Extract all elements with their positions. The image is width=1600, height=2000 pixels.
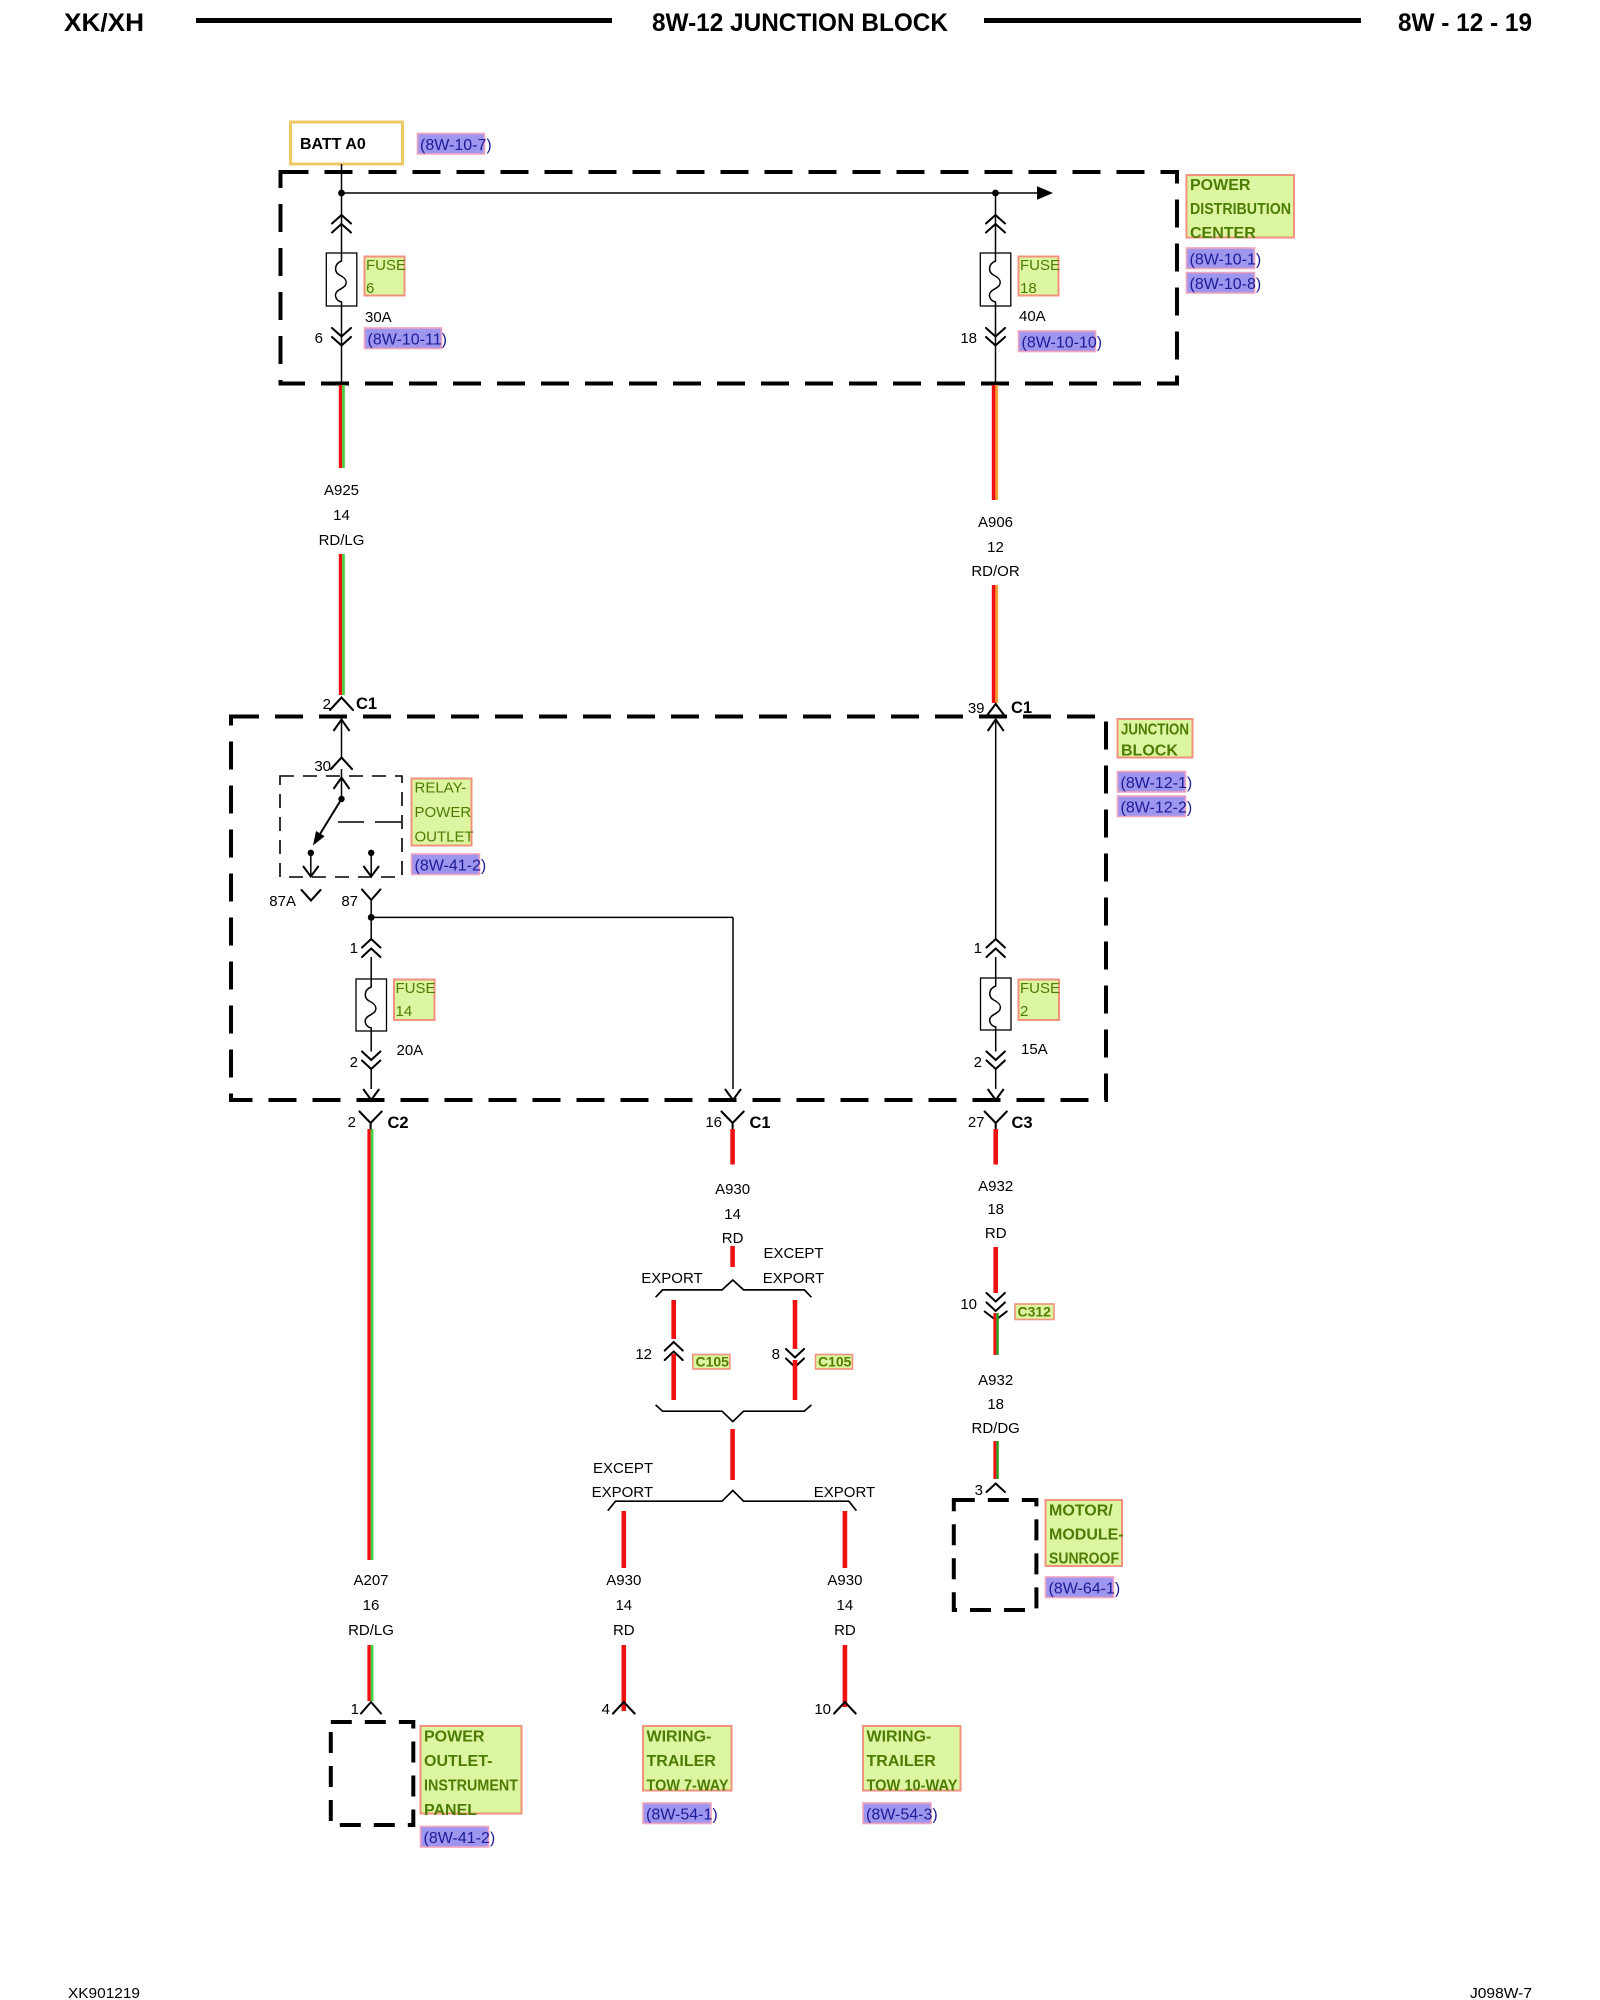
- svg-text:EXPORT: EXPORT: [592, 1484, 653, 1501]
- wire bus horizontal: [342, 192, 1038, 194]
- svg-text:JUNCTION: JUNCTION: [1121, 722, 1189, 739]
- wire merged stub RD: [730, 1429, 735, 1480]
- label C105 right: [816, 1354, 853, 1370]
- svg-text:EXCEPT: EXCEPT: [593, 1460, 653, 1477]
- wire entry arrow JB right: [988, 720, 1004, 940]
- svg-text:A932: A932: [978, 1178, 1013, 1195]
- svg-text:RD: RD: [985, 1225, 1007, 1242]
- wire A930 stub to split: [730, 1246, 735, 1267]
- svg-text:1: 1: [350, 940, 358, 957]
- reference (8W-41-2) lower: [421, 1827, 496, 1848]
- fuse F6 body: [326, 253, 357, 306]
- pin 87A label and chevron: [269, 890, 320, 910]
- wire fuse 18 to PDC edge: [995, 306, 997, 383]
- reference (8W-54-1): [643, 1803, 718, 1824]
- svg-text:RD/LG: RD/LG: [348, 1622, 394, 1639]
- svg-text:(8W-10-7): (8W-10-7): [420, 137, 492, 154]
- svg-text:4: 4: [602, 1701, 610, 1718]
- wire A925 upper segment RD/LG: [339, 385, 345, 468]
- svg-text:27: 27: [968, 1114, 985, 1131]
- svg-text:C312: C312: [1018, 1304, 1052, 1320]
- wire except-export branch upper RD: [793, 1300, 798, 1349]
- svg-text:87: 87: [341, 893, 358, 910]
- svg-text:A930: A930: [606, 1572, 641, 1589]
- label POWER OUTLET-INSTRUMENT PANEL: [421, 1726, 522, 1819]
- svg-text:30A: 30A: [365, 309, 392, 326]
- wire trailer 10way branch RD lower: [843, 1645, 848, 1707]
- pin 1 label and chevrons fuse 2: [974, 939, 1005, 978]
- node junction dot left: [338, 190, 345, 197]
- reference (8W-12-1): [1118, 772, 1193, 793]
- wire trailer 10way branch RD upper: [843, 1511, 848, 1568]
- svg-text:TOW 10-WAY: TOW 10-WAY: [867, 1778, 958, 1795]
- svg-text:WIRING-: WIRING-: [647, 1729, 712, 1746]
- label MOTOR/MODULE-SUNROOF: [1046, 1500, 1124, 1568]
- wire export branch lower RD: [671, 1354, 676, 1400]
- svg-text:RD/OR: RD/OR: [971, 563, 1020, 580]
- wire label A906 12 RD/OR: [971, 514, 1020, 580]
- wire trailer 7way branch RD upper: [622, 1511, 627, 1568]
- label POWER DISTRIBUTION CENTER: [1187, 175, 1295, 242]
- label JUNCTION BLOCK: [1118, 719, 1193, 760]
- wire export branch upper RD: [671, 1300, 676, 1339]
- svg-text:14: 14: [615, 1597, 632, 1614]
- label WIRING-TRAILER TOW 10-WAY: [863, 1726, 961, 1795]
- svg-text:2: 2: [974, 1054, 982, 1071]
- component sunroof module dashed box: [954, 1500, 1037, 1610]
- relay pin 87 internal: [363, 850, 379, 877]
- svg-text:14: 14: [396, 1003, 413, 1020]
- wire A932 RD from C3: [993, 1129, 998, 1165]
- svg-text:TRAILER: TRAILER: [867, 1753, 937, 1770]
- relay pin 87A internal: [303, 850, 319, 877]
- wire bus to fuse 18: [995, 193, 997, 253]
- svg-text:INSTRUMENT: INSTRUMENT: [424, 1778, 518, 1795]
- svg-text:6: 6: [315, 330, 323, 347]
- wire A906 upper segment RD/OR: [992, 385, 998, 500]
- connector C3 pin 27 below JB: [968, 1112, 1033, 1133]
- svg-text:FUSE: FUSE: [396, 980, 436, 997]
- wire fuse 6 to PDC edge: [341, 306, 343, 383]
- svg-text:15A: 15A: [1021, 1041, 1048, 1058]
- wire label A930 14 RD right: [827, 1572, 862, 1639]
- wire A932 RD to C312: [993, 1247, 998, 1293]
- svg-text:FUSE: FUSE: [1020, 257, 1060, 274]
- bus arrow right: [1037, 186, 1053, 200]
- label FUSE 6: [365, 257, 407, 298]
- reference (8W-12-2): [1118, 796, 1193, 817]
- svg-text:14: 14: [724, 1206, 741, 1223]
- wire fuse 2 down: [995, 1030, 997, 1052]
- connector C2 pin 2 below JB: [348, 1112, 409, 1133]
- pin 2 label and chevrons fuse 2 exit: [974, 1052, 1005, 1072]
- svg-text:40A: 40A: [1019, 308, 1046, 325]
- svg-text:OUTLET: OUTLET: [415, 829, 474, 846]
- label EXCEPT EXPORT right: [763, 1245, 824, 1287]
- component power outlet dashed box: [331, 1722, 414, 1825]
- wire bus to fuse 6: [341, 193, 343, 253]
- svg-text:RD: RD: [834, 1622, 856, 1639]
- svg-text:30: 30: [314, 758, 331, 775]
- wire BATT A0 to bus: [341, 164, 343, 193]
- wire except-export branch lower RD: [793, 1360, 798, 1400]
- merge brace below C105: [656, 1405, 812, 1422]
- reference (8W-10-8): [1187, 273, 1262, 294]
- wire 87 branch horizontal: [371, 916, 733, 918]
- svg-text:C105: C105: [696, 1354, 730, 1370]
- svg-text:(8W-10-10): (8W-10-10): [1022, 335, 1103, 352]
- power distribution center dashed box: [281, 172, 1178, 384]
- fuse F14 body: [356, 979, 387, 1031]
- label FUSE 2: [1019, 980, 1061, 1021]
- reference (8W-41-2): [412, 854, 487, 875]
- svg-text:C105: C105: [818, 1354, 852, 1370]
- svg-text:8W-12 JUNCTION BLOCK: 8W-12 JUNCTION BLOCK: [652, 9, 948, 37]
- svg-text:RD/DG: RD/DG: [972, 1420, 1020, 1437]
- svg-text:2: 2: [350, 1054, 358, 1071]
- wire A207 RD/LG long segment: [367, 1129, 373, 1560]
- svg-text:2: 2: [1020, 1003, 1028, 1020]
- svg-text:(8W-12-1): (8W-12-1): [1121, 775, 1193, 792]
- wire A207 lower segment: [367, 1645, 373, 1701]
- svg-text:A930: A930: [715, 1181, 750, 1198]
- svg-text:WIRING-: WIRING-: [867, 1729, 932, 1746]
- label EXCEPT EXPORT lower left: [592, 1460, 653, 1501]
- wire A932 RD/DG upper: [993, 1313, 998, 1355]
- connector pin 1 power outlet: [351, 1701, 381, 1718]
- svg-text:14: 14: [333, 507, 350, 524]
- svg-text:18: 18: [987, 1201, 1004, 1218]
- svg-text:(8W-10-1): (8W-10-1): [1190, 252, 1262, 269]
- wire A930 RD from C1: [730, 1129, 735, 1165]
- wire A932 RD/DG lower: [993, 1441, 998, 1479]
- connector C1 pin 16 below JB: [705, 1112, 770, 1133]
- fuse F2 body: [981, 978, 1012, 1030]
- svg-text:SUNROOF: SUNROOF: [1049, 1551, 1119, 1568]
- reference (8W-10-7): [418, 134, 492, 155]
- svg-text:14: 14: [837, 1597, 854, 1614]
- svg-text:RD: RD: [613, 1622, 635, 1639]
- svg-text:OUTLET-: OUTLET-: [424, 1753, 492, 1770]
- label FUSE 14: [394, 980, 436, 1021]
- svg-text:MOTOR/: MOTOR/: [1049, 1503, 1113, 1520]
- svg-text:POWER: POWER: [415, 804, 472, 821]
- svg-text:A207: A207: [353, 1572, 388, 1589]
- svg-text:A930: A930: [827, 1572, 862, 1589]
- splice chevrons above fuse 18: [986, 215, 1005, 233]
- svg-text:PANEL: PANEL: [424, 1802, 477, 1819]
- svg-text:18: 18: [987, 1396, 1004, 1413]
- node junction at 87: [368, 914, 375, 921]
- svg-text:BLOCK: BLOCK: [1121, 743, 1178, 760]
- relay K1 power outlet dashed box: [280, 776, 402, 877]
- svg-text:A906: A906: [978, 514, 1013, 531]
- svg-text:EXPORT: EXPORT: [814, 1484, 875, 1501]
- split brace lower except export / export: [608, 1491, 857, 1511]
- wire entry arrow to relay pin 30: [334, 720, 350, 758]
- svg-text:C1: C1: [750, 1114, 771, 1132]
- svg-text:C3: C3: [1012, 1114, 1033, 1132]
- pin 1 label and chevrons fuse 14: [350, 939, 381, 979]
- wire 87 branch down to C1 16: [725, 917, 741, 1100]
- connector C312 pin 10 chevrons: [960, 1293, 1006, 1320]
- svg-text:C1: C1: [356, 695, 377, 713]
- svg-text:87A: 87A: [269, 893, 296, 910]
- svg-text:MODULE-: MODULE-: [1049, 1527, 1124, 1544]
- reference (8W-54-3): [863, 1803, 938, 1824]
- label WIRING-TRAILER TOW 7-WAY: [643, 1726, 732, 1795]
- header rule right: [984, 18, 1361, 23]
- svg-text:C1: C1: [1011, 699, 1032, 717]
- svg-text:16: 16: [705, 1114, 722, 1131]
- svg-text:(8W-64-1): (8W-64-1): [1049, 1581, 1121, 1598]
- pin 6 exit chevrons: [332, 328, 351, 346]
- svg-text:POWER: POWER: [1190, 177, 1251, 194]
- wire label A925 14 RD/LG: [319, 482, 365, 549]
- wire 87 to fuse 14: [370, 917, 372, 939]
- wire trailer 7way branch RD lower: [622, 1645, 627, 1711]
- label FUSE 18: [1019, 257, 1061, 298]
- header rule left: [196, 18, 612, 23]
- svg-text:6: 6: [366, 280, 374, 297]
- pin 2 label and chevrons fuse 14 exit: [350, 1052, 381, 1072]
- svg-text:(8W-10-8): (8W-10-8): [1190, 276, 1262, 293]
- wire A925 lower segment RD/LG: [339, 554, 345, 695]
- connector pin 4 trailer 7way: [602, 1701, 635, 1718]
- wire label A930 14 RD left: [606, 1572, 641, 1639]
- svg-text:3: 3: [975, 1482, 983, 1499]
- svg-text:(8W-41-2): (8W-41-2): [424, 1830, 496, 1847]
- connector pin 3 sunroof: [975, 1482, 1005, 1499]
- svg-text:CENTER: CENTER: [1190, 225, 1256, 242]
- label RELAY-POWER OUTLET: [412, 779, 474, 846]
- svg-text:EXPORT: EXPORT: [763, 1270, 824, 1287]
- connector C105 pin 8 chevrons: [772, 1346, 804, 1367]
- reference (8W-10-10): [1019, 331, 1103, 352]
- wire to JB edge with arrow: [363, 1069, 379, 1100]
- svg-text:J098W-7: J098W-7: [1470, 1985, 1532, 2000]
- svg-text:RELAY-: RELAY-: [415, 780, 467, 797]
- wire A906 lower segment RD/OR: [992, 585, 998, 703]
- split brace export / except export: [656, 1280, 812, 1297]
- svg-text:8W - 12 - 19: 8W - 12 - 19: [1398, 9, 1532, 37]
- connector pin 10 trailer 10way: [814, 1701, 855, 1718]
- svg-text:XK901219: XK901219: [68, 1985, 140, 2000]
- svg-text:(8W-10-11): (8W-10-11): [368, 332, 447, 349]
- svg-text:20A: 20A: [397, 1042, 424, 1059]
- connector C1 pin 2 into junction block: [323, 695, 377, 713]
- svg-text:EXPORT: EXPORT: [641, 1270, 702, 1287]
- svg-text:12: 12: [987, 539, 1004, 556]
- svg-text:(8W-41-2): (8W-41-2): [415, 858, 487, 875]
- svg-text:TRAILER: TRAILER: [647, 1753, 717, 1770]
- svg-text:(8W-12-2): (8W-12-2): [1121, 800, 1193, 817]
- connector C105 pin 12 chevrons: [635, 1342, 682, 1363]
- pin 30 label and chevron: [314, 758, 352, 778]
- svg-text:1: 1: [351, 1701, 359, 1718]
- label C312: [1015, 1304, 1054, 1320]
- svg-text:TOW 7-WAY: TOW 7-WAY: [647, 1778, 729, 1795]
- svg-text:10: 10: [814, 1701, 831, 1718]
- reference (8W-10-11): [365, 328, 447, 349]
- wire label A932 18 RD/DG: [972, 1372, 1020, 1437]
- svg-text:DISTRIBUTION: DISTRIBUTION: [1190, 201, 1291, 218]
- svg-text:XK/XH: XK/XH: [64, 9, 144, 37]
- node BATT A0 feed box: [291, 122, 403, 164]
- svg-text:RD/LG: RD/LG: [319, 532, 365, 549]
- svg-text:(8W-54-3): (8W-54-3): [866, 1807, 938, 1824]
- reference (8W-10-1): [1187, 248, 1262, 269]
- wire fuse 14 down: [370, 1031, 372, 1052]
- node junction dot right: [992, 190, 999, 197]
- connector C1 pin 39 into junction block: [968, 699, 1032, 717]
- svg-text:FUSE: FUSE: [366, 257, 406, 274]
- svg-text:16: 16: [363, 1597, 380, 1614]
- svg-text:FUSE: FUSE: [1020, 980, 1060, 997]
- svg-text:(8W-54-1): (8W-54-1): [646, 1807, 718, 1824]
- svg-text:10: 10: [960, 1296, 977, 1313]
- svg-text:A925: A925: [324, 482, 359, 499]
- svg-text:2: 2: [348, 1114, 356, 1131]
- reference (8W-64-1): [1046, 1577, 1121, 1598]
- wire to JB edge arrow right column: [988, 1069, 1004, 1100]
- wire label A932 18 RD: [978, 1178, 1013, 1242]
- pin 87 label and chevron: [341, 890, 380, 918]
- svg-text:POWER: POWER: [424, 1729, 485, 1746]
- svg-text:RD: RD: [722, 1230, 744, 1247]
- fuse F18 body: [980, 253, 1011, 306]
- relay armature switch: [313, 799, 342, 846]
- wire label A207 16 RD/LG: [348, 1572, 394, 1639]
- pin 18 exit chevrons: [986, 328, 1005, 346]
- splice chevrons above fuse 6: [332, 215, 351, 233]
- svg-text:BATT A0: BATT A0: [300, 136, 366, 153]
- svg-text:1: 1: [974, 940, 982, 957]
- svg-text:18: 18: [1020, 280, 1037, 297]
- svg-text:C2: C2: [388, 1114, 409, 1132]
- svg-text:8: 8: [772, 1346, 780, 1363]
- svg-text:EXCEPT: EXCEPT: [763, 1245, 823, 1262]
- label C105 left: [693, 1354, 730, 1370]
- svg-text:39: 39: [968, 700, 985, 717]
- junction block dashed box: [231, 717, 1106, 1101]
- relay pin 30 internal arrow: [334, 778, 350, 803]
- svg-text:18: 18: [960, 330, 977, 347]
- svg-text:A932: A932: [978, 1372, 1013, 1389]
- svg-text:12: 12: [635, 1346, 652, 1363]
- wire label A930 14 RD: [715, 1181, 750, 1247]
